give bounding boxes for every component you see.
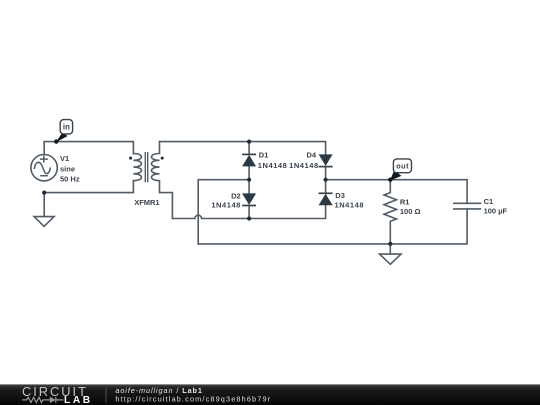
svg-text:V1: V1 [60,154,69,163]
svg-text:1N4148: 1N4148 [289,161,319,170]
svg-text:sine: sine [60,164,75,173]
svg-text:1N4148: 1N4148 [335,200,365,209]
svg-text:out: out [396,162,409,171]
svg-text:D3: D3 [335,191,345,200]
svg-text:in: in [63,123,70,132]
svg-text:http://circuitlab.com/c89q3e8h: http://circuitlab.com/c89q3e8h6b79r [115,394,271,403]
svg-text:XFMR1: XFMR1 [134,198,159,207]
svg-text:D2: D2 [231,191,241,200]
svg-text:LAB: LAB [64,395,93,405]
svg-text:C1: C1 [484,197,494,206]
svg-text:100 µF: 100 µF [484,207,508,216]
svg-text:1N4148: 1N4148 [258,161,288,170]
svg-text:D4: D4 [307,151,317,160]
svg-text:100 Ω: 100 Ω [400,207,421,216]
svg-text:50 Hz: 50 Hz [60,175,80,184]
svg-text:D1: D1 [259,151,269,160]
svg-text:R1: R1 [400,198,410,207]
svg-text:1N4148: 1N4148 [211,201,241,210]
